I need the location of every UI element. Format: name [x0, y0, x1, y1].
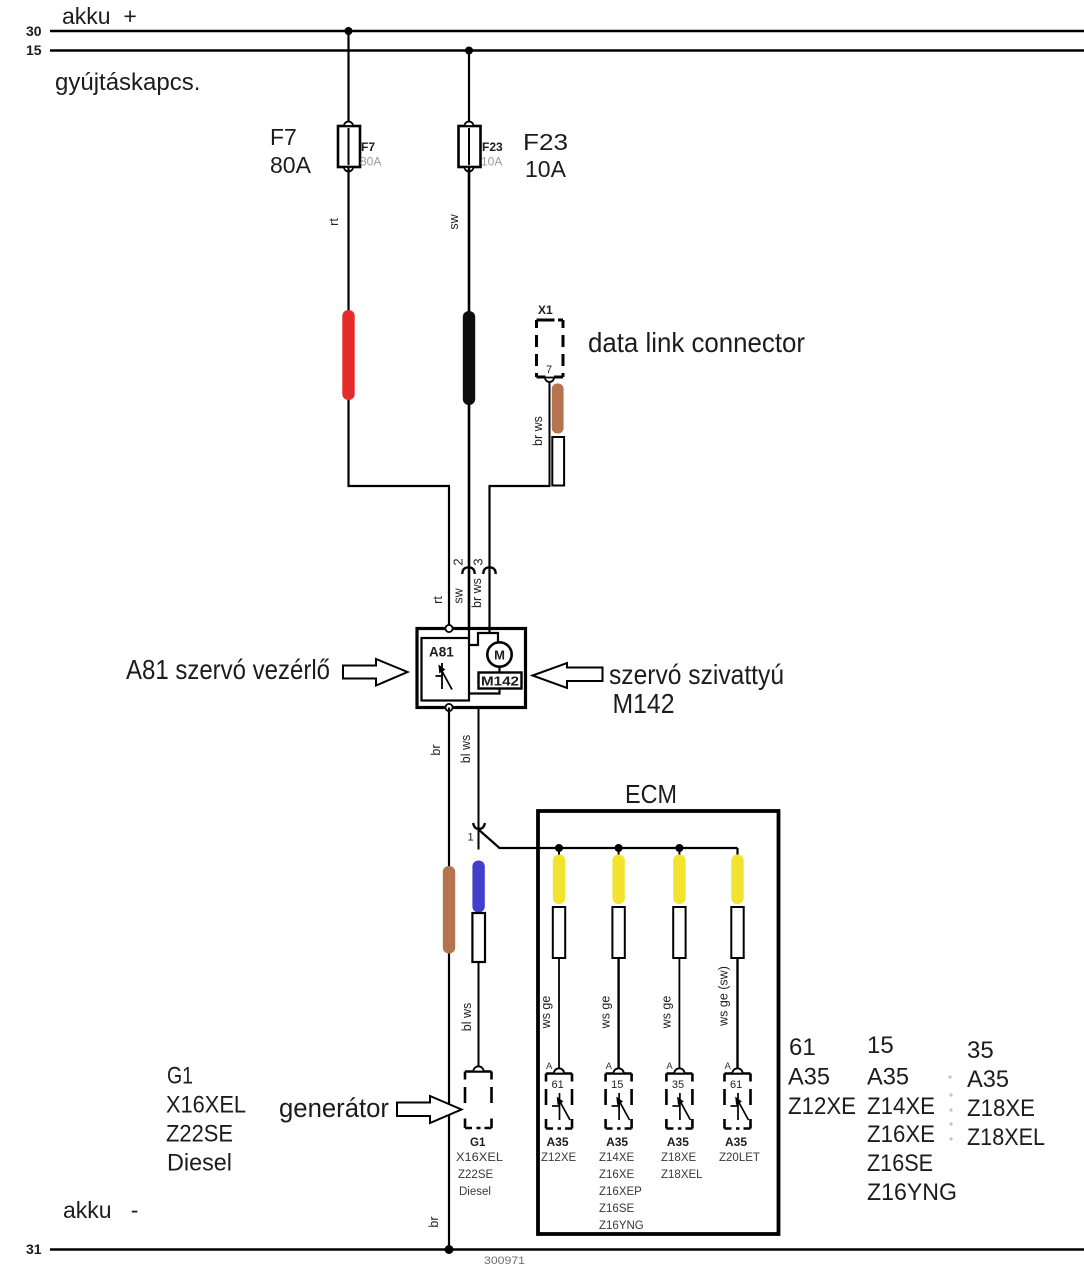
wire sw stub inside A81 [468, 629, 470, 640]
svg-text:bl ws: bl ws [459, 735, 473, 763]
svg-text:br ws: br ws [531, 416, 545, 446]
svg-text:M142: M142 [613, 688, 675, 719]
op unit A81 box [417, 629, 526, 708]
pin 2 hook [462, 567, 474, 574]
svg-text:Z18XEL: Z18XEL [967, 1124, 1045, 1151]
svg-text:1: 1 [468, 832, 474, 844]
relay A81 inner box [422, 638, 470, 701]
wire M142 return [469, 689, 500, 694]
svg-text:Z16XE: Z16XE [867, 1121, 935, 1148]
wire ECM bus [499, 847, 738, 849]
svg-text:ws ge: ws ge [659, 996, 673, 1030]
connector G1 [456, 1066, 504, 1198]
wire branch diagonal to ECM bus [479, 830, 500, 849]
wire motor to M142 label [498, 667, 500, 673]
terminal circle A81 bottom [445, 704, 452, 711]
svg-text:A81: A81 [429, 645, 454, 660]
svg-text:br ws: br ws [470, 578, 484, 608]
wire bl ws below A81 [478, 708, 480, 850]
svg-text:10A: 10A [481, 155, 502, 169]
svg-text:15: 15 [867, 1032, 894, 1059]
svg-text:A: A [666, 1061, 673, 1072]
ECM branch 3 [659, 848, 685, 1070]
wire br ws stub inside A81 [488, 629, 490, 634]
svg-text:A35: A35 [867, 1064, 909, 1091]
svg-text:br: br [429, 744, 443, 755]
svg-text:F23: F23 [523, 129, 568, 155]
svg-text:35: 35 [672, 1079, 684, 1091]
junction dot bus 2 [615, 844, 623, 852]
svg-text:10A: 10A [525, 156, 567, 182]
svg-text:F7: F7 [361, 140, 375, 154]
fuse F23 [459, 122, 481, 172]
pin 1 hook [473, 823, 485, 829]
wire br ws down to A81 [488, 486, 490, 629]
ECM branch 2 [599, 848, 625, 1070]
svg-text:61: 61 [552, 1079, 564, 1091]
wire segment brown insulation X1 [552, 384, 564, 434]
svg-text:Z18XEL: Z18XEL [661, 1169, 703, 1181]
svg-text:30: 30 [26, 23, 42, 39]
junction on rail 15 [465, 47, 473, 55]
wire rail 30 akku+ [50, 30, 1084, 32]
svg-text:Z18XE: Z18XE [967, 1095, 1035, 1122]
svg-text:35: 35 [967, 1037, 994, 1064]
svg-text:A: A [546, 1061, 553, 1072]
pin 7 terminal bump [545, 378, 554, 383]
svg-text:300971: 300971 [484, 1255, 525, 1267]
wire segment brown insulation br [443, 866, 455, 954]
wire bl ws to G1 [478, 962, 480, 1070]
svg-text:A35: A35 [547, 1135, 569, 1149]
wire rt down to A81 [448, 486, 450, 626]
junction dot bus 3 [675, 844, 683, 852]
svg-text:A81 szervó vezérlő: A81 szervó vezérlő [126, 654, 330, 685]
svg-text:Z20LET: Z20LET [719, 1152, 760, 1164]
connector A35 no1 [541, 1061, 576, 1164]
svg-text:ws ge: ws ge [599, 996, 613, 1030]
wire rt from rail 30 to fuse F7 [347, 31, 349, 126]
svg-text:sw: sw [452, 587, 466, 603]
wire sw from rail 15 to fuse F23 [468, 51, 470, 127]
wire br below A81 [448, 708, 450, 1250]
svg-text:61: 61 [730, 1079, 742, 1091]
svg-text:M: M [494, 648, 505, 663]
wire rail 31 akku- [50, 1248, 1084, 1251]
svg-text:gyújtáskapcs.: gyújtáskapcs. [55, 69, 200, 96]
inline connector white X1 [552, 437, 564, 486]
svg-text:A35: A35 [606, 1135, 628, 1149]
connector X1 [537, 320, 564, 377]
svg-text:M142: M142 [481, 674, 519, 689]
ECM branch 1 [539, 848, 565, 1070]
svg-text:61: 61 [789, 1034, 816, 1061]
wire segment black insulation [463, 311, 475, 405]
fuse F7 [338, 122, 360, 172]
svg-text:X1: X1 [538, 303, 553, 317]
svg-text:15: 15 [611, 1079, 623, 1091]
svg-text:A: A [725, 1061, 732, 1072]
ECM branch 4 [717, 848, 744, 1070]
terminal circle A81 top [445, 625, 452, 632]
svg-text:7: 7 [546, 364, 552, 376]
wire rail 15 ignition [50, 49, 1084, 51]
svg-text:2: 2 [451, 558, 466, 565]
svg-text:80A: 80A [270, 152, 312, 178]
junction on rail 31 [445, 1245, 454, 1254]
connector A35 no2 [599, 1061, 644, 1232]
unit ECM box [538, 811, 779, 1234]
connector A35 no3 [661, 1061, 703, 1181]
svg-text:A: A [606, 1061, 613, 1072]
svg-text:A35: A35 [788, 1064, 830, 1091]
svg-text:A35: A35 [725, 1135, 747, 1149]
svg-text:Z14XE: Z14XE [599, 1152, 634, 1164]
svg-text:bl ws: bl ws [460, 1003, 474, 1031]
inline connector white bl ws [472, 913, 485, 962]
junction dot bus 1 [555, 844, 563, 852]
svg-text:ws ge (sw): ws ge (sw) [717, 966, 731, 1027]
svg-text:Z22SE: Z22SE [166, 1121, 233, 1148]
svg-text:Z16XEP: Z16XEP [599, 1186, 642, 1198]
svg-text:F7: F7 [270, 124, 297, 150]
svg-text:3: 3 [471, 558, 486, 565]
svg-text:akku -: akku - [63, 1197, 138, 1223]
wire A81 internal step [469, 633, 498, 645]
svg-text:Z12XE: Z12XE [788, 1093, 856, 1120]
pin 3 hook [483, 567, 495, 574]
node M142 designator box [479, 673, 522, 689]
svg-text:A35: A35 [967, 1066, 1009, 1093]
wire br ws horizontal jog [489, 485, 551, 487]
svg-text:sw: sw [447, 213, 461, 229]
svg-text:szervó szivattyú: szervó szivattyú [609, 659, 784, 690]
svg-text:rt: rt [431, 596, 445, 604]
svg-text:Z16YNG: Z16YNG [867, 1179, 957, 1206]
svg-text:Z12XE: Z12XE [541, 1152, 576, 1164]
decorative faint dots [948, 1075, 952, 1140]
svg-text:Z16XE: Z16XE [599, 1169, 634, 1181]
wire segment blue insulation [472, 861, 484, 913]
wire br ws from X1 down [549, 382, 551, 487]
svg-text:ws ge: ws ge [539, 996, 553, 1030]
motor M142 circle [487, 642, 511, 666]
svg-text:akku +: akku + [62, 3, 137, 29]
svg-text:Diesel: Diesel [167, 1150, 232, 1177]
wire rt horizontal jog [348, 485, 451, 487]
connector A35 no4 [719, 1061, 760, 1164]
svg-text:G1: G1 [167, 1063, 193, 1090]
svg-text:data link connector: data link connector [588, 327, 805, 358]
wire sw F23 down to A81 [468, 167, 471, 629]
svg-text:Z14XE: Z14XE [867, 1093, 935, 1120]
svg-text:rt: rt [327, 218, 341, 226]
svg-text:Z16YNG: Z16YNG [599, 1220, 644, 1232]
svg-text:br: br [427, 1216, 441, 1227]
junction on rail 30 [345, 27, 353, 35]
svg-text:Z16SE: Z16SE [867, 1150, 933, 1177]
svg-text:Diesel: Diesel [459, 1186, 491, 1198]
wire segment red insulation [342, 310, 354, 400]
svg-text:15: 15 [26, 42, 42, 58]
svg-text:G1: G1 [470, 1137, 486, 1149]
svg-text:generátor: generátor [279, 1093, 389, 1123]
svg-text:Z16SE: Z16SE [599, 1203, 634, 1215]
arrow to A81 [343, 659, 408, 686]
svg-text:Z22SE: Z22SE [458, 1169, 493, 1181]
wire rt F7 down to corner [347, 167, 349, 487]
svg-text:X16XEL: X16XEL [456, 1152, 504, 1164]
svg-text:ECM: ECM [625, 779, 677, 809]
relay actuator symbol A81 [436, 663, 453, 690]
svg-text:X16XEL: X16XEL [166, 1092, 246, 1119]
svg-text:80A: 80A [360, 155, 381, 169]
svg-text:F23: F23 [482, 140, 503, 154]
svg-text:A35: A35 [667, 1135, 689, 1149]
arrow to M142 [533, 663, 603, 688]
svg-text:Z18XE: Z18XE [661, 1152, 696, 1164]
arrow to G1 [397, 1096, 462, 1123]
svg-text:31: 31 [26, 1241, 42, 1257]
